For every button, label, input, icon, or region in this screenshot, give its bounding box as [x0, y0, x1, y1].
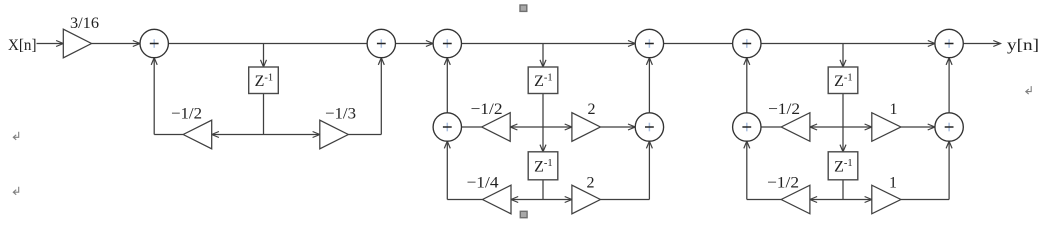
svg-text:−1/2: −1/2	[471, 101, 503, 118]
svg-text:2: 2	[588, 101, 596, 118]
svg-text:−1/2: −1/2	[768, 101, 800, 118]
svg-text:1: 1	[890, 101, 898, 118]
svg-text:y[n]: y[n]	[1007, 37, 1039, 54]
svg-text:1: 1	[889, 175, 897, 192]
svg-text:X[n]: X[n]	[8, 37, 37, 54]
svg-text:−1/2: −1/2	[171, 105, 202, 122]
svg-text:2: 2	[587, 175, 595, 192]
svg-text:−1/2: −1/2	[767, 175, 799, 192]
svg-text:−1/3: −1/3	[325, 105, 356, 122]
svg-text:−1/4: −1/4	[467, 175, 499, 192]
svg-text:3/16: 3/16	[70, 15, 99, 32]
